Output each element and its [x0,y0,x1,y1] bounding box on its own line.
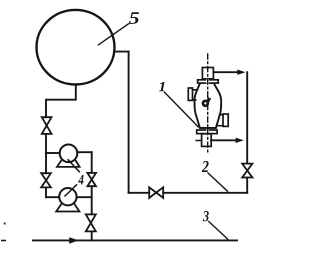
apparatus U1 left nozzle stub [192,90,197,100]
apparatus U1 top flange [198,80,219,83]
pump P1 base [57,157,80,167]
wire: horizontal run to valve V5 [129,192,150,194]
leader line from label 4 to pump P1 [68,160,79,172]
apparatus U1 left nozzle cap [188,88,192,100]
flow arrow on line 3 [69,237,78,243]
wire: pump P1 discharge line [77,151,92,153]
leader line to line 2 [208,173,228,191]
label 1 [159,82,165,91]
arrowhead bottom outlet [236,138,244,143]
valve V4 [86,214,96,231]
wire: right branch upper [91,152,93,173]
wire: right branch to bottom line [91,231,93,240]
leader line from label 4 to pump P2 [65,185,77,196]
wire: bottom process line 3 [33,239,237,241]
apparatus U1 body [194,84,221,128]
pump P2 (circle) [59,188,76,205]
apparatus U1 right nozzle stub [217,115,223,126]
wire: apparatus bottom outlet with arrow [211,139,236,141]
apparatus U1 body bottom edge [200,127,216,129]
apparatus U1 internal swirl symbol [203,101,208,106]
apparatus U1 top flange centre gap [206,79,209,84]
wire: tank right outlet [114,51,129,53]
label 3 [203,211,209,221]
label 2 [202,161,209,172]
apparatus U1 bottom stub pipe [202,134,212,147]
wire: right branch middle [91,186,93,214]
leader line to apparatus U1 [165,92,199,127]
apparatus U1 right nozzle cap [223,114,228,126]
wire: pump P1 suction line [46,152,60,154]
wire: apparatus top outlet with arrow [213,71,237,73]
tank 5 (vessel circle) [37,10,115,85]
arrowhead top outlet [237,70,245,75]
pump P1 (circle) [60,145,78,163]
wire: long vertical drop from tank [128,52,130,193]
valve V5 (horizontal) [149,187,163,198]
wire: left branch down to pump manifold [45,134,47,173]
speck artifact left [4,223,6,225]
speck artifact bottom-left [1,240,6,242]
label 5 [129,12,139,24]
valve V2 [41,173,51,187]
wire: horizontal run valve V5 to right riser [163,192,247,194]
label 4 [78,175,83,185]
valve V1 [42,117,52,134]
leader line to line 3 [209,222,228,240]
wire: right riser upper [246,72,248,163]
wire: pump P2 suction line [46,196,60,198]
apparatus U1 top stub pipe [202,68,213,79]
apparatus U1 centerline (dash-dot) [207,54,209,153]
wire: right riser lower [246,178,248,193]
wire: left branch below valve V2 [45,187,47,197]
wire: tank bottom outlet to valve V1 [46,84,76,117]
apparatus U1 bottom left tick [196,140,201,142]
pump P2 base [56,202,79,212]
apparatus U1 internal swirl tail [207,98,210,102]
valve V6 [242,164,252,178]
leader line to tank 5 [99,24,129,45]
apparatus U1 bottom flange centre gap [206,129,209,134]
apparatus U1 bottom flange [197,130,217,134]
valve V3 [87,173,96,186]
wire: pump P2 discharge line [77,196,92,198]
